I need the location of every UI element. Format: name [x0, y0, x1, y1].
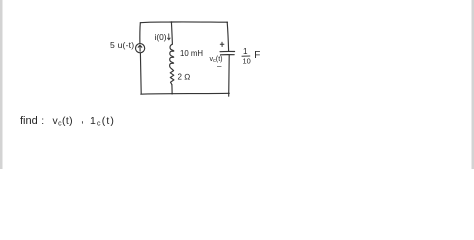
capacitor C1 bottom plate — [221, 54, 235, 56]
wire left upper — [139, 23, 141, 44]
svg-text:5 u(-t): 5 u(-t) — [110, 40, 134, 50]
svg-text:,: , — [81, 114, 84, 125]
svg-text:10 mH: 10 mH — [180, 49, 203, 58]
wire left lower — [139, 53, 142, 94]
label capacitor plus sign — [220, 42, 224, 46]
svg-text:1: 1 — [243, 47, 248, 56]
current source I1 circle — [136, 44, 145, 53]
i(0) arrow down — [167, 34, 170, 40]
fraction bar — [242, 55, 251, 57]
svg-text:i(0): i(0) — [155, 32, 167, 42]
svg-text:10: 10 — [243, 57, 251, 66]
wire middle upper — [171, 22, 172, 44]
inductor L1 10mH coil — [170, 44, 174, 69]
resistor R1 2ohm zigzag — [170, 69, 174, 85]
svg-text:2 Ω: 2 Ω — [178, 73, 191, 82]
junction node top middle — [171, 21, 173, 23]
corner node top right — [226, 22, 228, 24]
current source I1 arrow — [138, 45, 142, 51]
capacitor C1 top plate — [220, 50, 235, 52]
svg-text::: : — [41, 116, 44, 127]
wire middle lower — [171, 85, 173, 94]
corner node bottom right — [228, 93, 230, 95]
svg-text:vc(t): vc(t) — [53, 116, 74, 128]
svg-text:–: – — [217, 62, 222, 71]
svg-text:1c(t): 1c(t) — [90, 116, 115, 128]
left page edge strip — [0, 0, 3, 169]
junction node bottom middle — [171, 93, 173, 95]
svg-text:find: find — [20, 115, 38, 127]
wire bottom — [141, 92, 230, 95]
wire right lower — [228, 55, 231, 96]
wire right upper — [227, 22, 228, 51]
svg-text:F: F — [254, 50, 260, 61]
wire top — [140, 21, 227, 24]
right page edge strip — [472, 0, 474, 169]
